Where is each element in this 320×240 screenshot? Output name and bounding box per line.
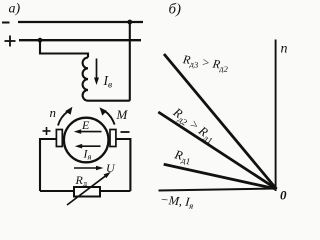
wire: right brush to bottom loop bbox=[116, 139, 130, 191]
right brush bbox=[110, 130, 116, 147]
rotation arrow n bbox=[58, 107, 72, 126]
positive terminal label + bbox=[5, 36, 16, 47]
positive supply rail wire bbox=[19, 39, 141, 41]
svg-text:E: E bbox=[81, 118, 90, 132]
characteristic line Rд3 bbox=[164, 54, 277, 189]
wire: field winding bottom to vertical branch bbox=[88, 100, 130, 102]
junction dot on positive rail bbox=[38, 38, 43, 43]
M axis horizontal bbox=[159, 189, 277, 191]
EMF arrow (left) bbox=[74, 129, 102, 134]
junction dot on negative rail bbox=[127, 20, 132, 25]
wire: bottom loop right segment bbox=[100, 190, 130, 192]
rheostat Rд bbox=[67, 172, 111, 205]
motor armature circle bbox=[64, 118, 109, 163]
n axis vertical bbox=[275, 40, 277, 192]
wire: bottom loop left segment bbox=[40, 190, 74, 192]
wire: positive rail to field winding bbox=[40, 40, 88, 57]
svg-text:n: n bbox=[281, 42, 288, 57]
inductor L field winding bbox=[83, 58, 88, 101]
negative supply rail wire bbox=[18, 21, 143, 23]
voltage arrow U bbox=[74, 166, 103, 171]
svg-text:б): б) bbox=[169, 2, 182, 18]
brush polarity - bbox=[121, 131, 130, 133]
left brush bbox=[56, 130, 62, 147]
svg-text:U: U bbox=[106, 161, 116, 175]
brush polarity + bbox=[43, 127, 51, 135]
wire: vertical branch up to negative rail bbox=[129, 22, 131, 101]
wire: left brush to bottom loop bbox=[40, 139, 56, 191]
characteristic line Rд1 bbox=[164, 164, 277, 189]
svg-text:M: M bbox=[116, 107, 129, 122]
svg-text:0: 0 bbox=[280, 188, 287, 203]
characteristic line Rд2 bbox=[158, 112, 276, 189]
svg-text:n: n bbox=[50, 105, 57, 120]
torque arrow M bbox=[100, 107, 115, 124]
current arrow Iв bbox=[94, 59, 99, 86]
svg-text:а): а) bbox=[9, 2, 21, 17]
armature current arrow (left) bbox=[75, 144, 101, 149]
negative terminal label - bbox=[2, 22, 10, 24]
